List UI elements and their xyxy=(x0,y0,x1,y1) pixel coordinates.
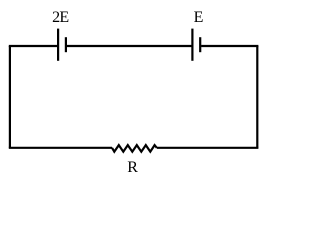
wire left vertical xyxy=(9,46,11,148)
svg-text:2E: 2E xyxy=(52,9,68,26)
wire top-left segment (left corner to battery 2E) xyxy=(9,45,57,47)
battery B1 short plate (negative) xyxy=(65,37,67,52)
wire bottom-left segment (left corner to resistor) xyxy=(9,147,112,149)
battery B1 long plate (positive) xyxy=(57,29,59,61)
svg-text:E: E xyxy=(194,9,204,26)
battery B2 short plate (negative) xyxy=(199,37,201,52)
wire top-middle segment (battery 2E to battery E) xyxy=(67,45,192,47)
resistor R zigzag xyxy=(112,145,157,152)
wire right vertical xyxy=(256,46,258,148)
wire bottom-right segment (resistor to right corner) xyxy=(157,147,259,149)
wire top-right segment (battery E to right corner) xyxy=(201,45,258,47)
svg-text:R: R xyxy=(127,159,138,176)
battery B2 long plate (positive) xyxy=(191,29,193,61)
